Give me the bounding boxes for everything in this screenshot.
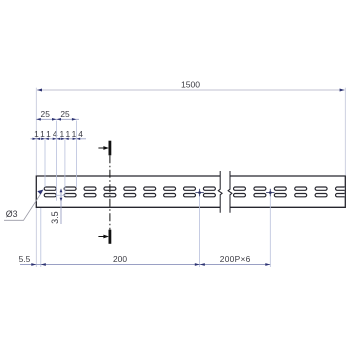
slot column 15 <box>336 187 348 190</box>
section arrow bottom <box>98 236 105 238</box>
slot column 7 <box>164 187 176 190</box>
slot column 12 <box>274 187 286 190</box>
slot column 5 <box>124 187 136 190</box>
extension line right edge (x=345.3) <box>344 88 346 176</box>
dim 1500 line <box>37 89 345 91</box>
200 arrows <box>195 263 200 266</box>
section mark thick bottom <box>109 230 112 244</box>
svg-text:5.5: 5.5 <box>19 254 31 264</box>
extension line left edge (x=36.3) <box>35 88 37 176</box>
break line right <box>228 171 232 213</box>
slot column 9 <box>203 187 215 190</box>
5.5 arrows <box>31 263 36 266</box>
bottom dim line <box>20 264 270 266</box>
slot column 1 <box>44 187 56 190</box>
slot column 10 <box>234 187 246 190</box>
strip body right part <box>230 176 345 207</box>
slot column 3 <box>84 187 96 190</box>
slot column 14 <box>315 187 327 190</box>
leader Ø3 <box>4 192 42 221</box>
svg-text:200P×6: 200P×6 <box>220 254 251 264</box>
slot column 6 <box>144 187 156 190</box>
slot column 11 <box>254 187 266 190</box>
extension from plus marks down <box>199 197 201 268</box>
svg-text:3.5: 3.5 <box>50 211 60 224</box>
svg-text:Ø3: Ø3 <box>6 209 18 219</box>
center mark plus at x=270.3 <box>266 189 274 197</box>
strip body left part <box>36 176 220 207</box>
dim 3.5 horizontal extension tick <box>56 194 66 196</box>
center mark plus at x=199.8 <box>195 189 203 197</box>
svg-text:25: 25 <box>60 109 70 119</box>
dim 25 25 line <box>36 118 79 120</box>
break line left <box>218 171 222 213</box>
slot column 8 <box>184 187 196 190</box>
section mark thick top <box>109 141 112 156</box>
extension hairlines from pitch dims down to strip <box>44 140 46 187</box>
svg-text:11141114: 11141114 <box>34 129 85 139</box>
slot columns <box>44 187 347 197</box>
svg-text:200: 200 <box>113 254 127 264</box>
section centerline dash-dot <box>109 155 111 229</box>
extension 5.5 right <box>40 208 42 267</box>
section arrow top <box>98 147 105 149</box>
slot column 13 <box>295 187 307 190</box>
200P arrows <box>200 263 205 266</box>
slot column 2 <box>64 187 76 190</box>
svg-text:25: 25 <box>41 109 51 119</box>
slot column 4 <box>104 187 116 190</box>
dim 3.5 vertical line <box>60 189 62 224</box>
dim 11 14 11 14 line <box>31 138 87 140</box>
svg-text:1500: 1500 <box>181 79 200 89</box>
